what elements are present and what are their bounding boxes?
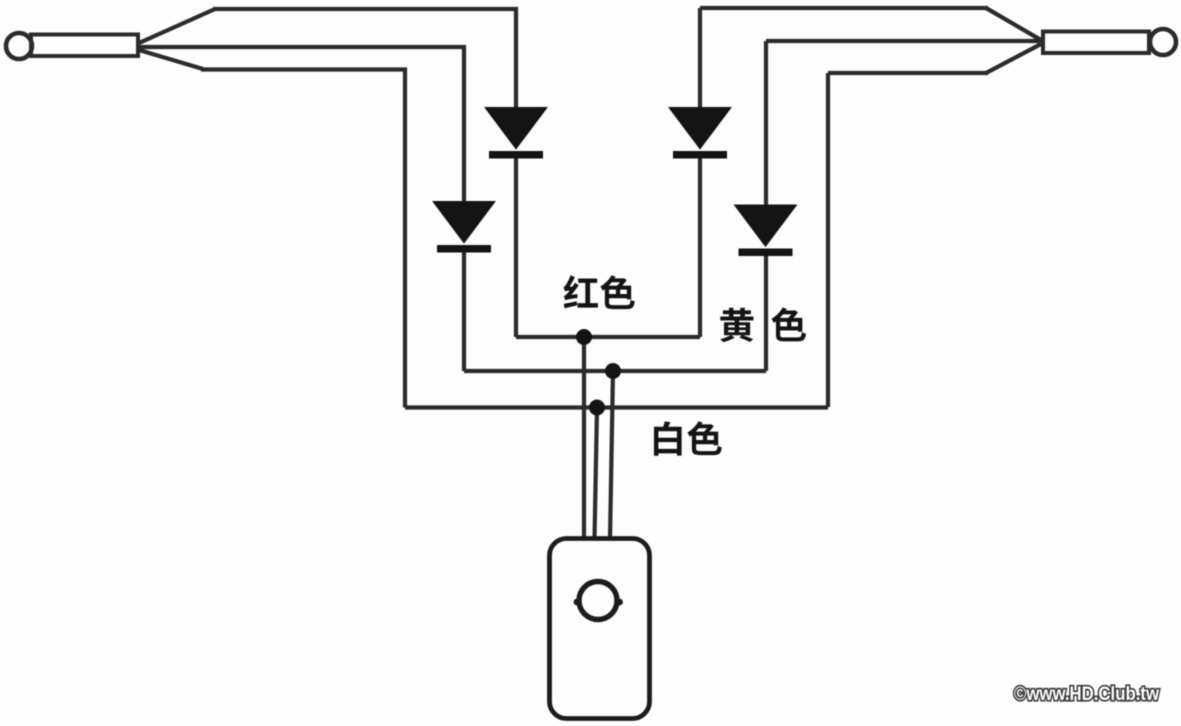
- diode D3 upper-right: [670, 108, 730, 159]
- wire: red bus: [516, 335, 700, 339]
- wire: white bus: [405, 405, 828, 409]
- wire: right top diagonal: [986, 8, 1041, 40]
- diode D2 lower-left: [434, 202, 494, 253]
- wire: left upper vertical below diode to red bus: [514, 155, 518, 337]
- wire: right top horizontal: [700, 6, 988, 10]
- wire: left top horizontal: [213, 9, 516, 110]
- left antenna rod: [31, 35, 138, 57]
- junction dot red node: [576, 329, 592, 345]
- wire: left middle horizontal: [139, 47, 464, 203]
- wire: right upper vertical below diode to red bus: [698, 155, 702, 337]
- wire: white drop to connector: [595, 408, 598, 540]
- wire: right upper vertical (top line to diode): [698, 8, 702, 110]
- wire: red drop to connector: [582, 337, 586, 539]
- junction dot white node: [589, 400, 605, 416]
- wire: right bottom diagonal: [986, 44, 1041, 73]
- wire: right middle horizontal: [766, 39, 1041, 43]
- label 红色 (red): [563, 275, 634, 309]
- wire: left bottom diagonal: [139, 50, 203, 69]
- diode D4 lower-right: [736, 206, 796, 257]
- wire: yellow drop to connector: [610, 371, 613, 539]
- wire: left lower vertical below diode to yellow bus: [462, 250, 466, 371]
- connector body: [550, 539, 650, 719]
- connector jack left nub: [574, 599, 581, 606]
- connector jack circle: [579, 582, 617, 620]
- junction dot yellow node: [605, 363, 621, 379]
- left antenna ball: [6, 33, 32, 59]
- svg-text:©www.HD.Club.tw: ©www.HD.Club.tw: [1014, 683, 1160, 705]
- wire: left top diagonal: [139, 9, 215, 43]
- wire: right bottom vertical: [826, 73, 830, 407]
- wire: yellow bus: [464, 369, 766, 373]
- label 黄 色 (yellow): [720, 307, 806, 342]
- wire: left bottom horizontal: [201, 70, 405, 408]
- diode D1 upper-left: [486, 108, 546, 159]
- label 白色 (white): [654, 421, 722, 455]
- wire: right lower vertical below diode to yellow bus: [764, 253, 768, 371]
- wire: right middle vertical through diode: [764, 41, 768, 207]
- right antenna rod: [1043, 32, 1149, 54]
- wire: right bottom horizontal: [828, 71, 988, 75]
- connector jack right nub: [616, 599, 623, 606]
- right antenna ball: [1150, 29, 1176, 55]
